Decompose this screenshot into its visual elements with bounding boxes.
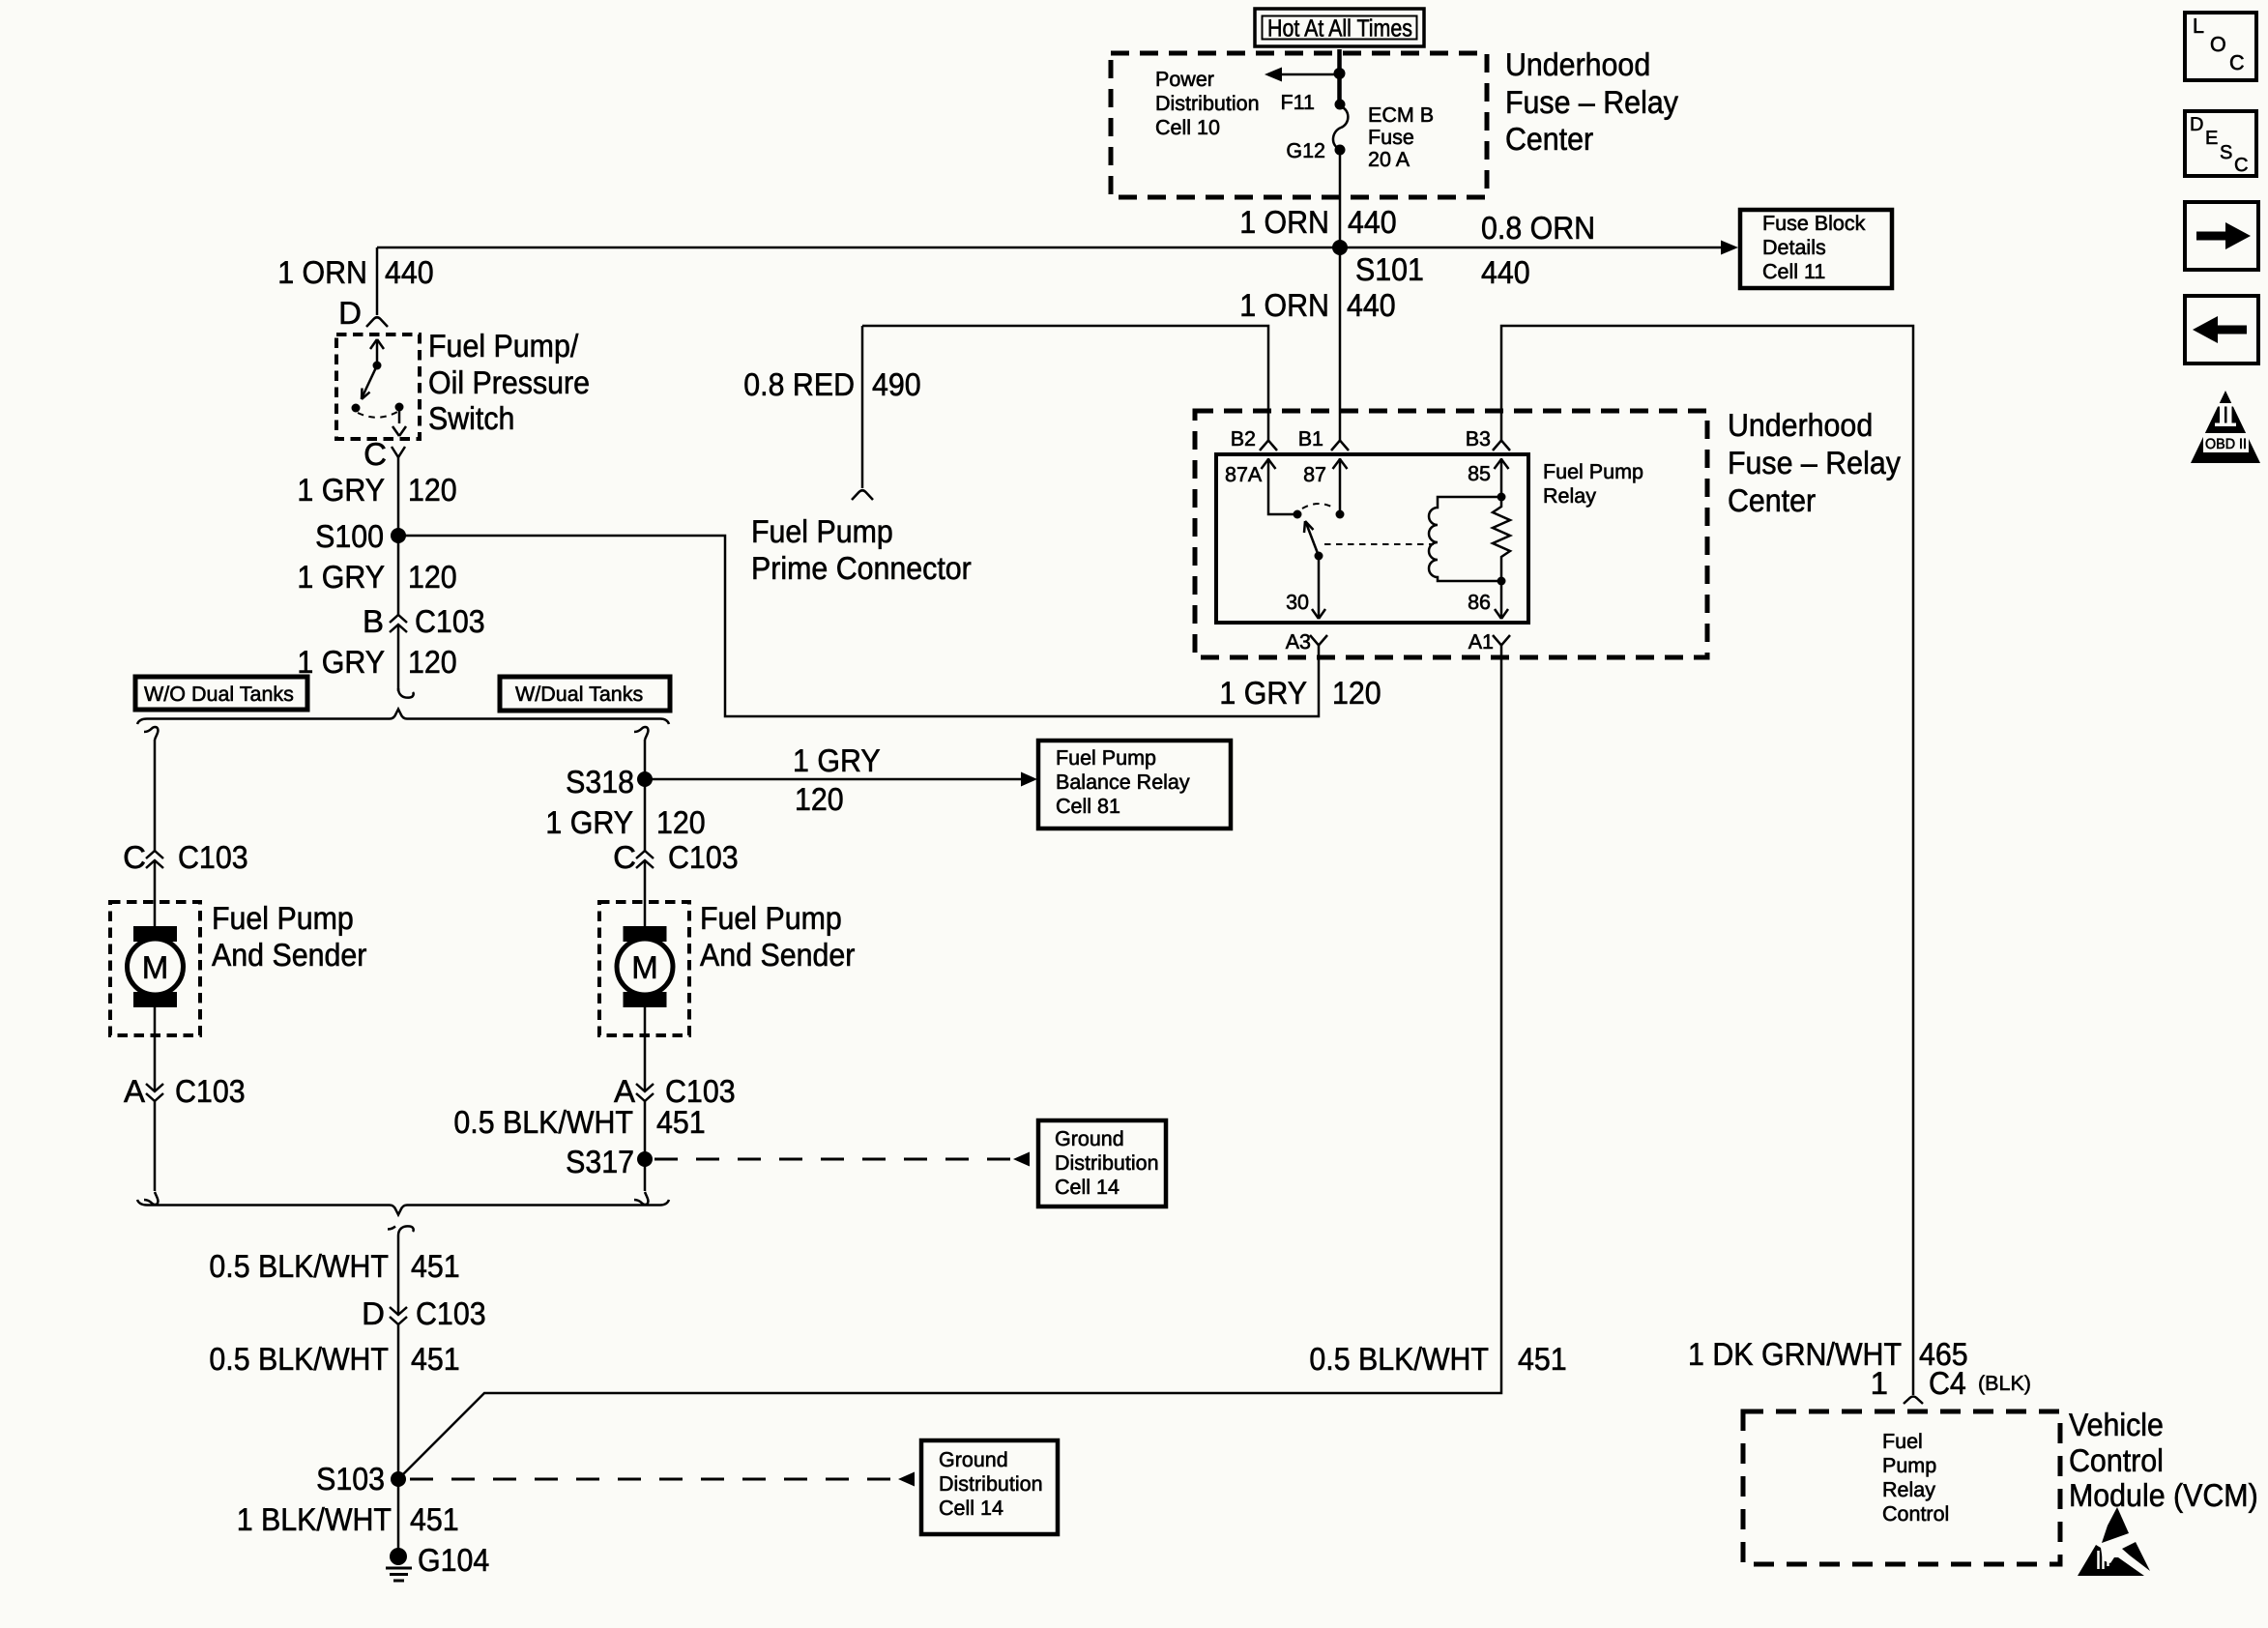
svg-text:Fuel: Fuel (1882, 1430, 1923, 1453)
node S103 (391, 1471, 406, 1487)
connector chevron C (392, 447, 405, 457)
svg-text:451: 451 (410, 1501, 459, 1537)
svg-text:Fuse: Fuse (1368, 126, 1414, 149)
label: 1 ORN 440 (below S101) (1239, 287, 1396, 323)
OBD II symbol (2191, 391, 2260, 463)
node S317 (637, 1151, 653, 1167)
svg-text:D: D (362, 1295, 385, 1331)
fuel pump balance relay cell 81 box (1038, 741, 1231, 829)
wire pigtail left branch top (144, 727, 158, 740)
wire: pump motor to C103 A (left) (154, 1007, 157, 1091)
svg-text:Distribution: Distribution (1055, 1151, 1159, 1175)
connector chevron D (366, 317, 388, 327)
wire pigtail left branch bottom (144, 1192, 158, 1205)
svg-text:Fuse – Relay: Fuse – Relay (1505, 84, 1678, 120)
svg-text:A: A (124, 1073, 145, 1109)
svg-text:O: O (2210, 33, 2226, 56)
connector chevron C4 pin 1 (1904, 1397, 1923, 1405)
svg-text:D: D (338, 295, 362, 331)
svg-text:S317: S317 (566, 1144, 634, 1179)
fuse ECM B 20A: terminal dots and S-curve element (1333, 100, 1348, 156)
svg-text:C: C (363, 436, 387, 472)
wire: S101 horizontal bus to Fuse Block Details (377, 247, 1723, 249)
svg-text:C: C (613, 839, 636, 875)
svg-text:Balance Relay: Balance Relay (1056, 770, 1190, 794)
svg-text:1 GRY: 1 GRY (1219, 675, 1307, 711)
svg-text:451: 451 (656, 1104, 706, 1140)
label: 0.5 BLK/WHT 451 (below D) (209, 1341, 459, 1377)
svg-text:0.8 ORN: 0.8 ORN (1481, 210, 1595, 246)
svg-text:Fuse – Relay: Fuse – Relay (1728, 445, 1901, 480)
wire: S100 down to connector C103 B (397, 536, 400, 615)
svg-text:C103: C103 (415, 603, 485, 639)
connector chevron B3 (1493, 441, 1510, 451)
svg-text:OBD II: OBD II (2205, 436, 2247, 452)
svg-text:440: 440 (1481, 254, 1530, 290)
wire: 1 ORN drop to oil pressure switch (376, 247, 379, 315)
label: 1 GRY 120 (above split) (297, 644, 456, 680)
label: 0.5 BLK/WHT 451 (above D) (209, 1248, 459, 1284)
svg-text:451: 451 (1518, 1341, 1567, 1377)
svg-text:Distribution: Distribution (939, 1472, 1043, 1496)
svg-text:86: 86 (1468, 591, 1491, 614)
switch contact dot (left) (352, 404, 361, 413)
label: Fuel Pump And Sender (left) (212, 900, 366, 973)
wire: fuse output down to S101 (1339, 155, 1342, 247)
wire: horizontal 337 run prime-connector to relay B2 (862, 326, 1268, 440)
connector C103 pin C double chevron (right) (636, 851, 654, 868)
relay armature dashed throw arc (1302, 504, 1335, 509)
svg-text:0.5 BLK/WHT: 0.5 BLK/WHT (1309, 1341, 1489, 1377)
svg-text:C: C (123, 839, 146, 875)
ground G104 (386, 1548, 412, 1581)
switch arm with arrowhead (362, 365, 377, 399)
label: Fuel Pump Relay (1543, 460, 1643, 508)
svg-text:1 GRY: 1 GRY (297, 472, 385, 508)
svg-text:C103: C103 (175, 1073, 246, 1109)
svg-text:S100: S100 (315, 518, 384, 554)
wire: branch arrow to Power Distribution (1280, 73, 1339, 76)
svg-text:120: 120 (1332, 675, 1381, 711)
svg-text:S318: S318 (566, 764, 634, 799)
svg-text:Fuel Pump: Fuel Pump (700, 900, 842, 936)
label: 1 GRY 120 (above S100) (297, 472, 456, 508)
svg-text:Distribution: Distribution (1155, 92, 1260, 115)
svg-text:451: 451 (411, 1248, 460, 1284)
svg-text:Details: Details (1762, 236, 1826, 259)
svg-text:0.5 BLK/WHT: 0.5 BLK/WHT (209, 1248, 389, 1284)
svg-text:Fuel Pump: Fuel Pump (1056, 746, 1156, 770)
svg-text:Fuel Pump/: Fuel Pump/ (428, 328, 579, 363)
svg-text:440: 440 (385, 254, 434, 290)
wire pigtail at option split (398, 688, 414, 698)
svg-text:Module (VCM): Module (VCM) (2069, 1477, 2258, 1513)
fuel pump relay U1 box (1216, 454, 1528, 623)
svg-text:Oil Pressure: Oil Pressure (428, 364, 590, 400)
wire: 0.8 RED 490 drop to prime connector (861, 326, 864, 488)
wire: merge down to C103 D (0.5 BLK/WHT 451) (397, 1236, 400, 1315)
hot-at-all-times label box (1255, 9, 1424, 46)
label: 1 ORN 440 (left) (277, 254, 434, 290)
svg-text:C: C (2229, 51, 2245, 74)
svg-text:1 BLK/WHT: 1 BLK/WHT (237, 1501, 392, 1537)
label: Fuel Pump Prime Connector (751, 513, 972, 586)
label: Underhood Fuse - Relay Center (top) (1505, 46, 1678, 157)
vehicle control module dashed box (1743, 1411, 2060, 1564)
svg-text:0.5 BLK/WHT: 0.5 BLK/WHT (453, 1104, 633, 1140)
ESD sensitive symbol (2078, 1507, 2150, 1576)
ground distribution cell 14 box (S103) (921, 1440, 1058, 1534)
svg-text:120: 120 (408, 472, 457, 508)
label: Fuel Pump Relay Control (1882, 1430, 1949, 1526)
relay coil L1 (1429, 497, 1501, 581)
w/o dual tanks option box (135, 677, 307, 710)
svg-text:B1: B1 (1298, 427, 1323, 451)
connector C103 pin D double chevron (390, 1307, 407, 1324)
svg-text:1 GRY: 1 GRY (793, 742, 881, 778)
switch terminal D arrow (370, 339, 384, 370)
fuel pump motor M (left) (128, 926, 184, 1007)
next page arrow box (2185, 202, 2258, 270)
svg-text:L: L (2193, 15, 2204, 38)
svg-text:G12: G12 (1286, 139, 1325, 162)
svg-text:0.8 RED: 0.8 RED (743, 366, 855, 402)
relay armature arm with arrowhead (1304, 521, 1323, 561)
connector chevron A3 (1310, 635, 1327, 646)
label: Vehicle Control Module (VCM) (2069, 1407, 2258, 1513)
svg-text:A1: A1 (1468, 630, 1494, 654)
wire: C103 D down to S103 (397, 1324, 400, 1479)
label: ECM B Fuse 20 A (1368, 103, 1434, 171)
svg-text:(BLK): (BLK) (1978, 1372, 2031, 1395)
fuse block details cell 11 box (1740, 210, 1892, 288)
svg-text:Center: Center (1505, 121, 1593, 157)
wire pigtail below merge bracket (388, 1226, 414, 1236)
fuel pump and sender dashed box (right) (599, 902, 689, 1035)
label: 1 GRY 120 (below S318) (545, 804, 705, 840)
fuel pump and sender dashed box (left) (110, 902, 200, 1035)
svg-text:B2: B2 (1231, 427, 1256, 451)
wire: S101 down to relay pin B1 (1339, 247, 1342, 440)
svg-text:0.5 BLK/WHT: 0.5 BLK/WHT (209, 1341, 389, 1377)
svg-text:Ground: Ground (939, 1448, 1008, 1471)
ground distribution cell 14 box (S317) (1038, 1120, 1166, 1206)
option merge bracket (bottom) (137, 1200, 669, 1215)
svg-text:B3: B3 (1466, 427, 1491, 451)
svg-text:Control: Control (1882, 1502, 1949, 1526)
svg-text:Cell 11: Cell 11 (1762, 260, 1825, 283)
relay coil-armature dashed actuation link (1324, 543, 1434, 545)
wire: relay A1 down to ground trunk (0.5 BLK/WHT 451) (398, 646, 1501, 1479)
label: 1 GRY 120 (below S100) (297, 559, 456, 595)
DESC nav box (2185, 111, 2256, 176)
wire pigtail right branch bottom (634, 1192, 648, 1205)
svg-text:S101: S101 (1355, 251, 1424, 287)
relay contact 87: arrow and wire (1333, 458, 1348, 519)
svg-text:Fuel Pump: Fuel Pump (212, 900, 354, 936)
label: 0.8 RED 490 (743, 366, 920, 402)
label: 1 ORN 440 (above S101) (1239, 204, 1397, 240)
svg-text:And Sender: And Sender (212, 937, 366, 973)
svg-text:C103: C103 (668, 839, 739, 875)
wire: battery feed into fuse F11 (thick) (1337, 49, 1342, 101)
w/dual tanks option box (500, 677, 670, 711)
wire pigtail right branch top (634, 727, 648, 740)
svg-text:W/O Dual Tanks: W/O Dual Tanks (144, 683, 294, 706)
svg-text:Underhood: Underhood (1728, 407, 1873, 443)
label: 1 BLK/WHT 451 (237, 1501, 459, 1537)
connector C103 pin A double chevron (left) (146, 1084, 163, 1101)
relay coil feed 85: arrow and wire (1495, 458, 1509, 502)
svg-text:440: 440 (1347, 287, 1396, 323)
svg-text:1 GRY: 1 GRY (545, 804, 633, 840)
svg-text:Control: Control (2069, 1442, 2164, 1478)
svg-text:Fuel Pump: Fuel Pump (1543, 460, 1643, 483)
svg-text:1 ORN: 1 ORN (277, 254, 367, 290)
svg-text:1: 1 (1871, 1365, 1888, 1401)
svg-text:440: 440 (1348, 204, 1397, 240)
svg-text:85: 85 (1468, 462, 1491, 485)
label: 1 GRY / 120 (balance feed) (793, 742, 881, 817)
switch contact dot (right) and terminal C arrow (393, 403, 406, 437)
connector: fuel pump prime connector terminal (852, 490, 873, 500)
connector C103 pin A double chevron (right) (636, 1084, 654, 1101)
svg-text:ECM B: ECM B (1368, 103, 1434, 127)
connector C103 pin B double chevron (390, 615, 407, 632)
wire: left branch feed (154, 740, 157, 851)
svg-text:87: 87 (1303, 463, 1326, 486)
svg-text:C103: C103 (178, 839, 248, 875)
LOC nav box (2185, 13, 2256, 80)
label: 1 DK GRN/WHT 465 (1688, 1336, 1968, 1372)
svg-text:A3: A3 (1286, 630, 1311, 654)
svg-text:1 ORN: 1 ORN (1239, 287, 1329, 323)
wire: switch C down to S100 (1 GRY 120) (397, 457, 400, 536)
wire: S318 to fuel pump balance relay (645, 778, 1023, 781)
svg-text:W/Dual Tanks: W/Dual Tanks (515, 683, 643, 706)
label: Underhood Fuse - Relay Center (relay) (1728, 407, 1901, 518)
connector chevron A1 (1493, 635, 1510, 646)
connector C103 pin C double chevron (left) (146, 851, 163, 868)
svg-text:S: S (2220, 142, 2232, 163)
svg-text:Prime Connector: Prime Connector (751, 550, 972, 586)
wire: C103 B down to option split (397, 625, 400, 691)
label: pin 1 C4 (BLK) (1871, 1365, 2031, 1401)
svg-text:Switch: Switch (428, 400, 514, 436)
switch dashed throw arc (358, 412, 397, 418)
label: 0.5 BLK/WHT 451 (right) (1309, 1341, 1566, 1377)
svg-text:Underhood: Underhood (1505, 46, 1650, 82)
svg-text:Fuel Pump: Fuel Pump (751, 513, 893, 549)
label: Power Distribution Cell 10 (1155, 68, 1260, 139)
svg-text:C4: C4 (1929, 1365, 1966, 1401)
svg-text:C103: C103 (416, 1295, 486, 1331)
svg-text:Ground: Ground (1055, 1127, 1124, 1150)
relay coil resistor R1 (1493, 497, 1510, 581)
connector chevron B2 (1260, 441, 1277, 451)
fuel pump motor M (right) (617, 926, 673, 1007)
svg-text:Relay: Relay (1543, 484, 1596, 508)
underhood fuse-relay center dashed box (top) (1111, 53, 1487, 197)
svg-text:Cell 10: Cell 10 (1155, 116, 1220, 139)
wire: C103 C to pump motor (left) (154, 860, 157, 927)
svg-text:Cell 81: Cell 81 (1056, 795, 1120, 818)
label: 1 GRY 120 (below relay) (1219, 675, 1381, 711)
label: Fuel Pump/ Oil Pressure Switch (428, 328, 590, 436)
svg-text:120: 120 (408, 644, 457, 680)
wire: C103 C to pump motor (right) (644, 860, 647, 927)
label: Fuel Pump And Sender (right) (700, 900, 855, 973)
svg-text:G104: G104 (418, 1542, 489, 1578)
wire: relay A3 down-left to S100 run (1 GRY 120) (398, 536, 1319, 716)
node S101 (1332, 240, 1348, 255)
wire: right branch feed to S318 (644, 740, 647, 851)
svg-text:Hot At All Times: Hot At All Times (1267, 15, 1412, 43)
label: 0.5 BLK/WHT 451 (right branch) (453, 1104, 705, 1140)
svg-text:Cell 14: Cell 14 (939, 1497, 1003, 1520)
relay contact 87A: arrow and wire (1262, 458, 1302, 519)
svg-text:B: B (363, 603, 384, 639)
svg-text:Pump: Pump (1882, 1454, 1936, 1477)
label: 0.8 ORN 440 (1481, 210, 1595, 290)
node S318 (637, 771, 653, 787)
svg-text:Power: Power (1155, 68, 1214, 91)
svg-text:1 GRY: 1 GRY (297, 559, 385, 595)
wire: C103 A down to merge (left) (154, 1101, 157, 1191)
svg-text:E: E (2205, 128, 2218, 149)
junction dot above F11 (1334, 68, 1346, 79)
svg-text:Cell 14: Cell 14 (1055, 1176, 1119, 1199)
svg-text:And Sender: And Sender (700, 937, 855, 973)
relay common 30: wire and arrow to pin A3 (1312, 556, 1325, 619)
option bracket (top) (137, 710, 669, 725)
svg-text:451: 451 (411, 1341, 460, 1377)
wire: S103 to ground G104 (1 BLK/WHT 451) (397, 1479, 400, 1549)
svg-text:M: M (142, 949, 169, 985)
svg-text:D: D (2190, 114, 2203, 135)
svg-text:30: 30 (1286, 591, 1309, 614)
svg-text:120: 120 (408, 559, 457, 595)
svg-text:490: 490 (872, 366, 921, 402)
underhood fuse-relay center dashed box (relay) (1195, 411, 1707, 657)
wire: horizontal 337 run relay B3 to VCM drop (1501, 326, 1913, 1395)
svg-text:M: M (631, 949, 658, 985)
relay coil ground 86: dot wire and arrow to pin A1 (1495, 577, 1508, 620)
svg-text:20 A: 20 A (1368, 148, 1410, 171)
svg-text:87A: 87A (1225, 463, 1263, 486)
svg-text:120: 120 (795, 781, 844, 817)
svg-text:Relay: Relay (1882, 1478, 1935, 1501)
svg-text:120: 120 (656, 804, 706, 840)
svg-text:1 GRY: 1 GRY (297, 644, 385, 680)
dashed wire: S103 to ground distribution (410, 1478, 896, 1481)
svg-text:F11: F11 (1281, 91, 1315, 114)
wire: pump motor to C103 A (right) (644, 1007, 647, 1091)
svg-text:Vehicle: Vehicle (2069, 1407, 2164, 1442)
dashed wire: S317 to ground distribution (654, 1158, 1011, 1161)
svg-text:Fuse Block: Fuse Block (1762, 212, 1866, 235)
svg-text:C: C (2234, 155, 2248, 176)
node S100 (391, 528, 406, 543)
svg-text:Center: Center (1728, 482, 1816, 518)
fuel pump / oil pressure switch S1 dashed box (336, 334, 420, 439)
svg-text:1 ORN: 1 ORN (1239, 204, 1329, 240)
previous page arrow box (2185, 296, 2258, 363)
connector chevron B1 (1331, 441, 1349, 451)
wire: C103 A down to S317 and merge (right) (644, 1101, 647, 1191)
svg-text:S103: S103 (316, 1461, 385, 1497)
